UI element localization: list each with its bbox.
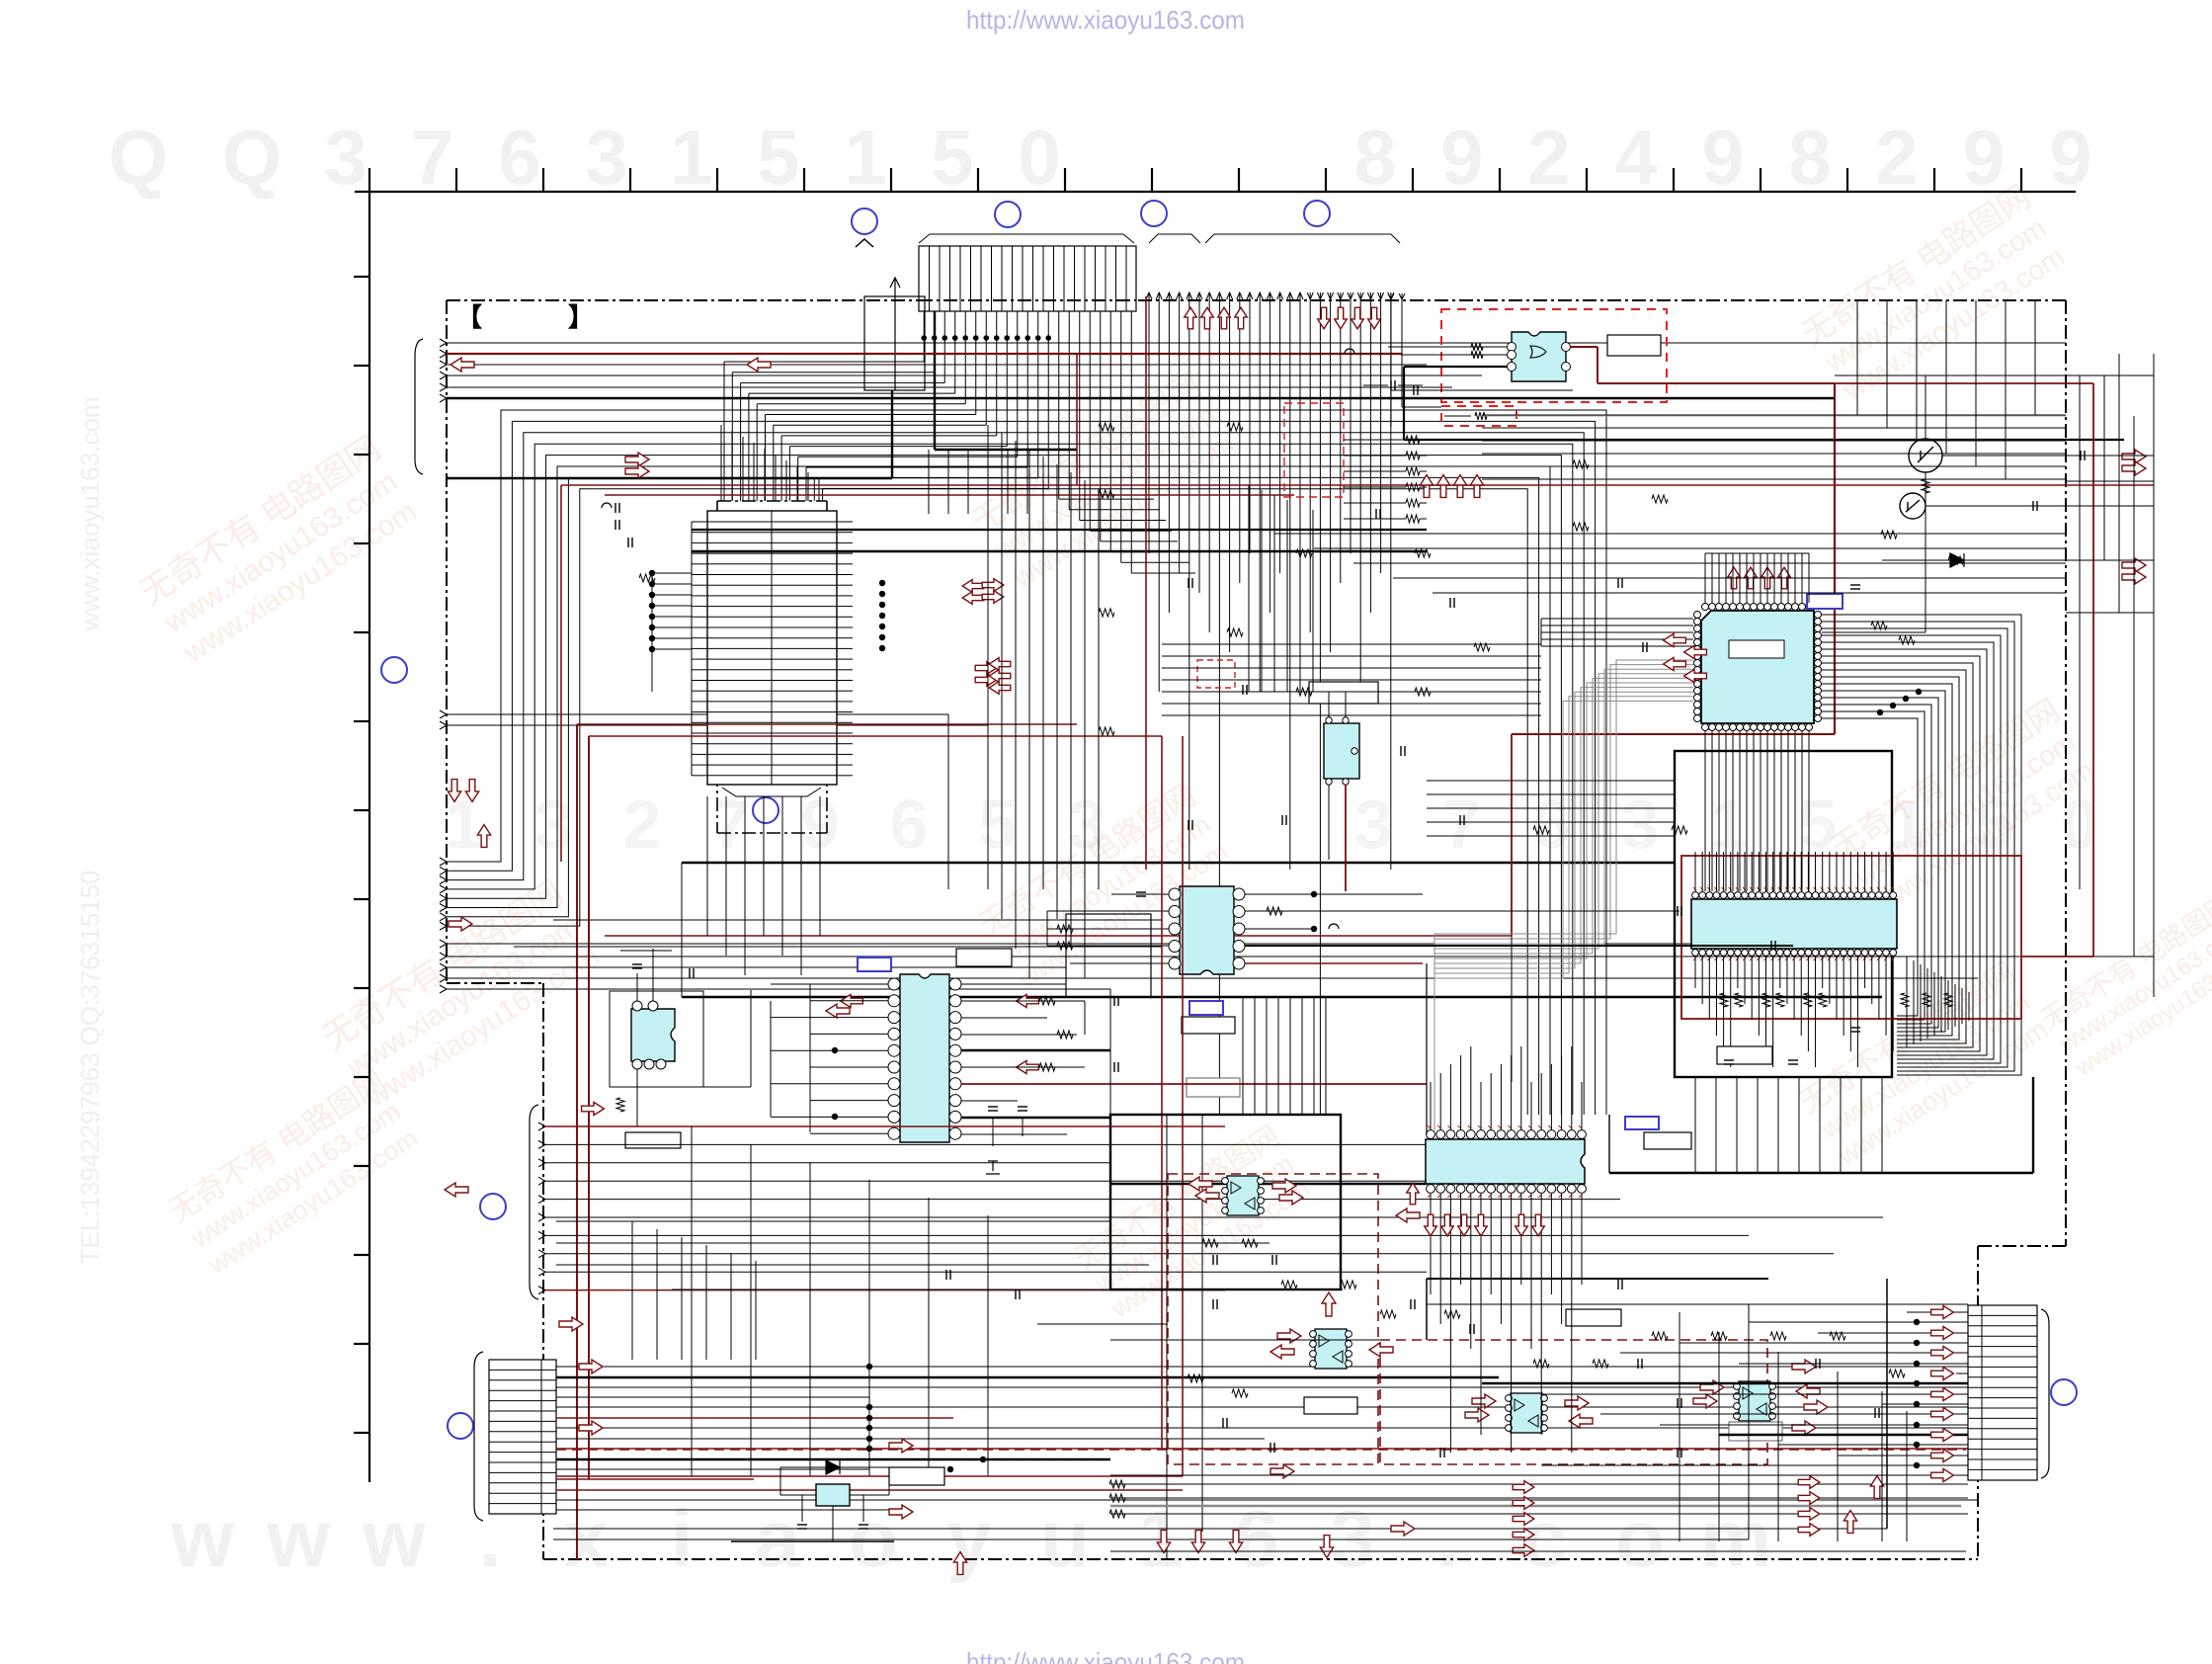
component arrow pair on input bus <box>451 358 474 372</box>
node overbrace top connector <box>919 234 1134 243</box>
svg-text:5: 5 <box>979 786 1018 863</box>
svg-text:9: 9 <box>2049 114 2091 201</box>
transistor Q201 <box>1909 439 1942 493</box>
node bottom url watermark <box>966 1647 1245 1664</box>
wire thick bus under comb to IC <box>692 530 1427 551</box>
svg-text:http://www.xiaoyu163.com: http://www.xiaoyu163.com <box>966 1647 1245 1664</box>
component arrow cluster bottom-right stack <box>1798 1476 1820 1489</box>
component arrow cluster IC401 right inner <box>982 579 1004 592</box>
node faint page-number watermark row middle <box>446 786 2099 863</box>
node sheet reference circle (775,820) <box>753 797 778 823</box>
component maroon arrow cluster top-center down <box>1318 307 1331 329</box>
node label box IC403 <box>625 1132 681 1148</box>
node label box blue bottom <box>1625 1117 1659 1129</box>
svg-text:5: 5 <box>931 114 973 201</box>
svg-text:w: w <box>266 1494 330 1584</box>
component res scattered bottom <box>1202 1239 1218 1247</box>
node IC401 right dot column <box>879 580 885 586</box>
component arrow left of IC605 <box>1407 1183 1420 1205</box>
node brace left upper <box>415 339 423 474</box>
wire IC403 nets <box>610 949 751 1126</box>
component arrow right side nested bus2 <box>2122 558 2146 572</box>
wire net maroon right loop <box>1835 383 2093 957</box>
wire IC302 top pin risers <box>1695 852 1893 891</box>
component maroon arrow cluster above MCU <box>1728 567 1741 589</box>
wire MCU left pins to gray bus <box>1434 660 1693 1130</box>
wire CN801 pin wires <box>1110 1312 1968 1475</box>
wire bus upper-right horizontals <box>1482 415 2066 479</box>
node label box blue MCU <box>1807 594 1843 609</box>
wire CN601 pin wires <box>556 1367 1978 1510</box>
svg-text:】: 】 <box>568 302 594 332</box>
node diagonal site watermarks <box>133 179 2212 1326</box>
wire bus lower-left risers <box>632 1221 756 1360</box>
component maroon arrow cluster mid-right up <box>1420 475 1433 498</box>
wire dash-dot box around IC401 <box>717 501 827 833</box>
IC IC303 small <box>1324 717 1359 785</box>
node sheet reference circle (2089,1409) <box>2051 1379 2077 1405</box>
node label box IC402 <box>956 949 1012 966</box>
svg-text:8: 8 <box>1788 114 1831 201</box>
svg-text:0: 0 <box>1018 114 1060 201</box>
wire MCU left upper pins <box>1541 619 1693 646</box>
node circumflex mark under circle <box>856 239 873 247</box>
component caps scattered mid <box>1375 509 1377 519</box>
node bracket-left board name <box>456 302 594 332</box>
node brace left mid <box>530 1105 538 1299</box>
IC IC401 ladder body <box>707 511 837 785</box>
component maroon arrow cluster top-center up <box>1185 307 1197 329</box>
svg-text:2: 2 <box>1875 114 1918 201</box>
svg-text:1: 1 <box>844 114 886 201</box>
node sheet reference circle (1168,216) <box>1141 201 1167 226</box>
node maroon dashed box B <box>1380 1340 1767 1464</box>
component arrows mid-page left <box>448 780 460 802</box>
IC IC605 wide bottom <box>1426 1130 1586 1194</box>
component arrows around IC603 <box>1472 1394 1496 1408</box>
node overbrace right <box>1205 234 1400 243</box>
node red dashed box around IC201 <box>1441 309 1667 402</box>
wire dash-dot across top connector <box>919 299 1136 301</box>
IC IC201 gate <box>1508 332 1571 381</box>
node MCU right dots <box>1916 689 1922 695</box>
wire MCU right pins nested bend <box>1822 615 2021 1075</box>
component arrows around IC601 <box>1188 1177 1212 1191</box>
op-amp IC602 <box>1315 1329 1347 1369</box>
diode D201 <box>1950 553 1964 567</box>
node tiny red dashed box <box>1197 660 1235 688</box>
wire IC201 output maroon <box>1512 347 1835 936</box>
wire bus right verticals upper <box>1857 300 2035 479</box>
wire net maroon pair upper <box>561 354 2154 862</box>
wire IC402 right nets <box>961 984 1427 1134</box>
svg-text:5: 5 <box>1799 786 1838 863</box>
node label box near IC603 <box>1566 1309 1621 1326</box>
component res row under IC302 <box>1720 993 1728 1007</box>
svg-text:6: 6 <box>1532 786 1571 863</box>
node IC401 bottom bracket <box>722 788 821 796</box>
op-amp IC601 <box>1227 1176 1259 1215</box>
node label box mid <box>1309 682 1378 704</box>
svg-text:3: 3 <box>534 786 573 863</box>
node sheet reference circle (1333,216) <box>1304 201 1330 226</box>
wire bus top-left inputs <box>440 339 2066 402</box>
component res scattered upper mid <box>1099 423 1114 431</box>
wire lower area horizontals <box>556 1221 1343 1290</box>
node label blue IC304 <box>1189 1001 1223 1015</box>
component res left of IC401 <box>639 574 655 582</box>
wire MCU misc right <box>1822 472 1925 644</box>
wire long right verticals outer <box>2104 354 2154 997</box>
wire lower nest under IC302 <box>1907 957 1969 1047</box>
wire bus center verticals to bottom <box>1243 997 1326 1115</box>
svg-text:【: 【 <box>456 302 482 332</box>
component arrow bottom up pair <box>1843 1511 1856 1534</box>
component VR601 regulator <box>731 1460 894 1541</box>
component arrows right of CN601 <box>579 1360 603 1373</box>
component arrows around IC602 <box>1277 1329 1301 1343</box>
wire thick bottom edge of right block <box>1609 1077 2033 1173</box>
wire box maroon around IC302 <box>1681 856 2021 1019</box>
svg-text:7: 7 <box>411 114 453 201</box>
svg-text:1: 1 <box>670 114 712 201</box>
component caps below IC402 right <box>986 1107 1027 1174</box>
wire IC302 bottom pin drops <box>1695 957 1893 1067</box>
node sheet reference circle (399,678) <box>381 657 407 683</box>
IC IC304 DIP8 <box>1169 886 1245 974</box>
node label box near IC602 <box>1304 1397 1357 1414</box>
wire comb lattice stubs <box>929 450 1027 514</box>
wire bus bottom horizontals spanning <box>553 1484 1968 1539</box>
wire MCU top pin risers <box>1705 553 1809 603</box>
wire net maroon long verticals left <box>577 724 1162 1559</box>
op-amp IC604 <box>1739 1381 1770 1421</box>
component arrows IC402 right <box>1017 994 1039 1007</box>
node IC605 red pin ticks <box>1428 1125 1582 1198</box>
wire bus mid extra horizontals <box>440 920 1883 948</box>
wire transistor nets <box>1835 375 2154 564</box>
svg-text:9: 9 <box>1962 114 2005 201</box>
wire top connector pin drops <box>724 311 1195 573</box>
wire thick mid horizontals <box>682 862 1675 864</box>
node brace connector bottom-left <box>474 1352 483 1521</box>
node sheet reference circle (875,224) <box>852 208 877 234</box>
component arrows around IC604 <box>1700 1380 1724 1394</box>
svg-text:3: 3 <box>1354 786 1393 863</box>
node label box right of VR601 <box>889 1467 944 1485</box>
transistor Q202 <box>1900 493 1925 519</box>
wire bus top-center verticals with arrowheads <box>1146 292 1394 1115</box>
wire IC401 top feeds <box>721 425 819 501</box>
node IC401 left dot column <box>649 570 655 576</box>
component caps scattered bottom <box>1212 1255 1214 1265</box>
svg-text:w: w <box>170 1494 234 1584</box>
wire bus mid-left inputs <box>538 1123 1883 1294</box>
svg-text:http://www.xiaoyu163.com: http://www.xiaoyu163.com <box>966 5 1245 35</box>
wire bottom long line extra <box>1110 1550 1966 1552</box>
node red dashed box mid-left of MCU <box>1284 403 1344 497</box>
wire bus mid-page horizontals <box>440 936 2154 993</box>
svg-text:www.xiaoyu163.com: www.xiaoyu163.com <box>75 397 105 632</box>
wire bus center-left verticals (descend from nested bus) <box>988 425 1099 978</box>
IC IC403 small <box>631 1001 675 1069</box>
node overbrace mid <box>1149 234 1200 243</box>
node label blue IC402 <box>858 957 891 971</box>
svg-text:9: 9 <box>1440 114 1483 201</box>
wire right-edge extra verticals <box>2066 354 2154 889</box>
component arrow mid-left bundle <box>582 1102 605 1115</box>
node box with up arrow right of connector <box>864 278 925 390</box>
IC IC402 DIP20 <box>888 974 961 1142</box>
wire IC303 nets <box>1274 692 1346 891</box>
connector CN601 bottom-left <box>489 1360 556 1514</box>
wire risers from mid-left bundle <box>692 1126 988 1476</box>
op-amp IC603 <box>1511 1393 1542 1433</box>
component arrow cluster IC401 left inner <box>962 580 984 593</box>
node label box bottom IC wide <box>1644 1132 1691 1149</box>
node faint url watermark row bottom-large <box>170 1494 1771 1584</box>
wire bus right-mid fill horizontals <box>1274 534 2066 593</box>
component caps under IC302 <box>1724 1059 1734 1061</box>
component res on bottom horizontals <box>1109 1480 1125 1488</box>
svg-text:9: 9 <box>1701 114 1744 201</box>
node label box gray IC304 <box>1187 1078 1240 1097</box>
wire bottom-left long verticals <box>1066 914 1512 1134</box>
wire bus left verticals below IC401 <box>707 796 820 975</box>
wire gray heavy bottom line <box>1110 1505 1961 1508</box>
wire IC201 input nets <box>1388 293 2124 440</box>
wire box thick bottom-center <box>1110 1115 1427 1559</box>
node sheet reference circle (466,1443) <box>448 1413 473 1439</box>
svg-text:Q: Q <box>109 114 169 201</box>
component arrows lower-left column <box>1157 1531 1170 1553</box>
component resistor ladder center <box>1344 436 1427 523</box>
wire box around IC304 area <box>1066 914 1151 997</box>
IC IC302 wide <box>1691 892 1897 957</box>
wire IC605 bottom drops <box>1431 1194 1582 1453</box>
node label box IC304 <box>1182 1017 1235 1034</box>
connector CN801 bottom-right <box>1968 1305 2037 1480</box>
svg-text:2: 2 <box>623 786 662 863</box>
component arrow column CN801 <box>1931 1305 1954 1318</box>
svg-text:6: 6 <box>498 114 540 201</box>
svg-text:TEL:13942297963 QQ:376315150: TEL:13942297963 QQ:376315150 <box>75 870 105 1264</box>
wire IC304 right nets <box>1245 891 1793 963</box>
component arrow cluster IC401 left lower <box>975 662 997 675</box>
component arrow cluster IC401 right lower <box>989 658 1011 671</box>
node IC302 red pin ticks <box>1693 887 1894 960</box>
wire IC402 left nets <box>771 984 888 1133</box>
component arrow IC402 left <box>841 994 863 1007</box>
wire box thick around IC302 <box>1675 751 1892 1077</box>
node wire hop on red net <box>1345 349 1354 354</box>
node sheet reference circle (1020,217) <box>995 202 1021 227</box>
component arrow cluster under IC605 <box>1425 1214 1437 1236</box>
wire thick drop pair from connector <box>447 311 1077 478</box>
wire MCU bottom pin drops <box>1705 731 1809 891</box>
node faint page-number watermark row top <box>109 114 2092 201</box>
wire IC401 left feed verticals <box>652 573 692 692</box>
wire bottom region frame horizontals <box>1037 1279 1968 1539</box>
IC IC301 MCU <box>1694 604 1822 731</box>
svg-text:8: 8 <box>1353 114 1396 201</box>
node top url watermark <box>966 5 1245 35</box>
node faint left-edge vertical watermark <box>75 397 105 1265</box>
connector CN901 top <box>919 246 1136 311</box>
component arrow bottom row <box>1391 1522 1415 1536</box>
svg-text:1: 1 <box>1710 786 1749 863</box>
component arrow cluster left of MCU <box>1664 633 1686 646</box>
node CN801 dots <box>1914 1319 1920 1325</box>
component caps left of IC401 <box>614 503 616 513</box>
node label box near IC604 <box>1729 1422 1782 1441</box>
svg-text:3: 3 <box>1621 786 1660 863</box>
svg-text:3: 3 <box>324 114 367 201</box>
component arrow right side nested bus <box>2122 450 2146 463</box>
wire IC304 left nets <box>1047 892 1169 963</box>
wire maroon bottom returns <box>556 296 1183 1476</box>
component cap top right area <box>1390 380 1392 390</box>
wire bus left mid inputs <box>440 710 988 889</box>
node sheet reference circle (499,1221) <box>480 1194 506 1219</box>
node label box right of IC201 <box>1607 335 1661 356</box>
wire dash-dot board outline <box>447 300 2066 1559</box>
node ruler left <box>354 192 369 1482</box>
node brace connector bottom-right <box>2041 1309 2049 1478</box>
svg-text:Q: Q <box>222 114 283 201</box>
wire IC401 left pin stubs <box>692 522 707 776</box>
svg-text:w: w <box>362 1494 426 1584</box>
svg-text:6: 6 <box>890 786 929 863</box>
wire verticals center below maroon pair <box>1249 485 1313 692</box>
wire IC401 right pin stubs <box>837 522 853 776</box>
wire bus between boxes right <box>1427 781 1675 836</box>
svg-text:2: 2 <box>1527 114 1570 201</box>
svg-text:3: 3 <box>585 114 627 201</box>
wire CN801 feed verticals <box>1679 1312 1907 1541</box>
wire IC605 top risers <box>1431 1046 1582 1130</box>
svg-text:4: 4 <box>1614 114 1657 201</box>
wire bus right-mid horizontals into MCU zone <box>1162 644 1541 715</box>
svg-text:7: 7 <box>1443 786 1482 863</box>
node red dashed box small below IC201 <box>1441 406 1516 426</box>
component arrow cluster bottom stack <box>1513 1481 1534 1494</box>
node maroon dashed box A <box>1168 1174 1378 1464</box>
node label box under IC302 <box>1717 1046 1772 1064</box>
node CN601 dot column <box>866 1364 872 1370</box>
component arrow on nested bus <box>625 453 649 466</box>
node ruler top <box>355 168 2076 192</box>
svg-text:5: 5 <box>757 114 799 201</box>
wire maroon dashed bottom long <box>556 1449 1966 1451</box>
wire bus nested-L main <box>440 410 1606 1115</box>
